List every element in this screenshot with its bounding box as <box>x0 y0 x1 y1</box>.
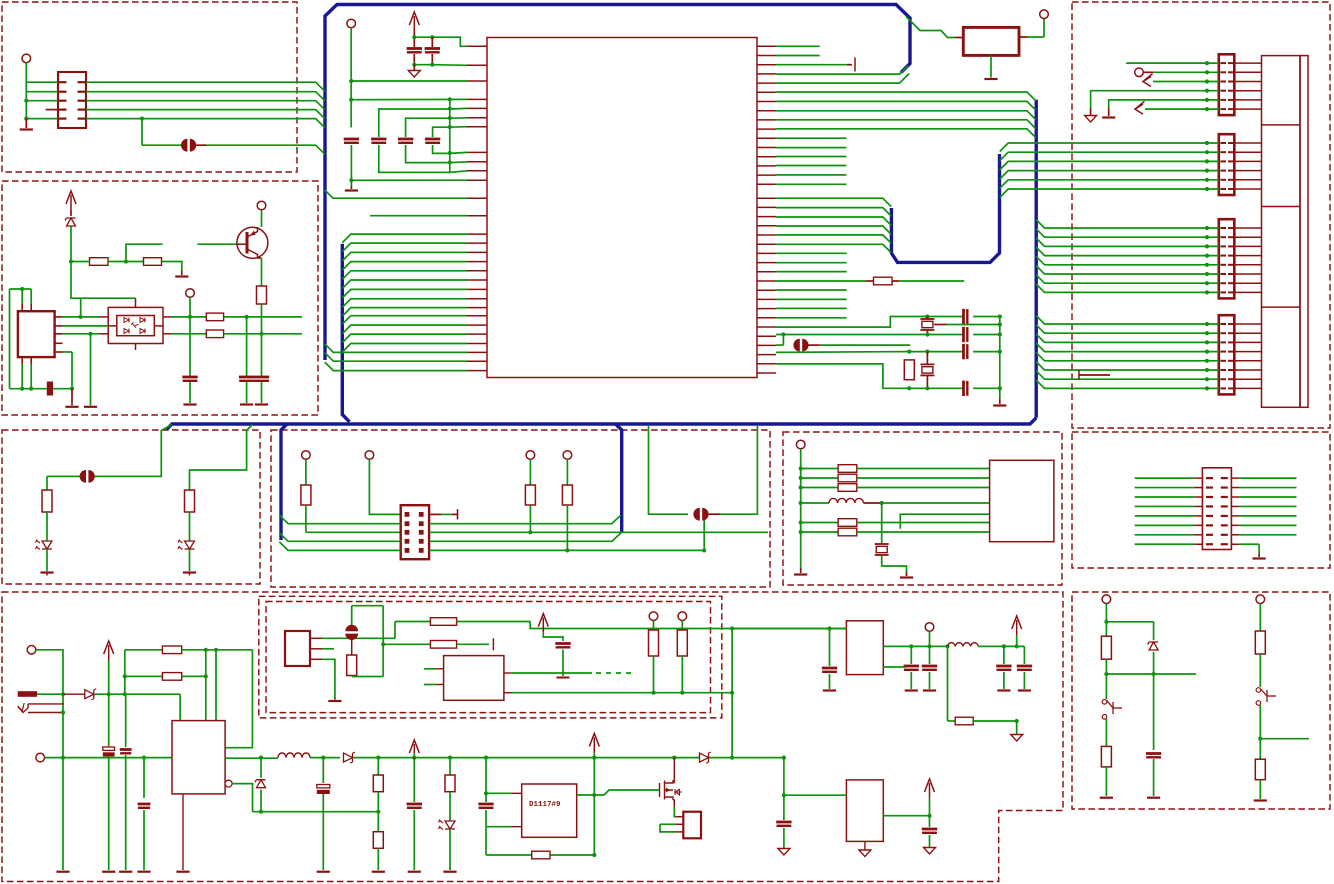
wire <box>305 505 307 532</box>
LED D3 <box>42 541 52 549</box>
wire <box>205 650 207 721</box>
ground <box>183 403 196 405</box>
transistor Q1 <box>237 227 268 258</box>
wire <box>162 262 182 272</box>
ground <box>1100 797 1113 799</box>
wire <box>1105 659 1107 699</box>
zener diode D2 <box>70 210 72 216</box>
3pin connector J9 body <box>683 812 701 839</box>
wire bus to U3 <box>906 17 955 38</box>
wire <box>1016 635 1018 646</box>
cap C21 <box>413 759 415 802</box>
VCC symbol <box>409 740 419 753</box>
wire <box>593 758 595 855</box>
connector CN2 side pins <box>55 316 63 318</box>
ground <box>40 571 53 573</box>
wire <box>660 823 676 825</box>
wire <box>1145 108 1219 110</box>
capacitor C10 <box>254 376 269 379</box>
bus: drop bus into middle connector box <box>281 424 287 540</box>
stub <box>926 330 928 335</box>
terminal pad <box>1102 595 1111 604</box>
main 3V3 rail wire <box>354 757 784 759</box>
ground <box>800 568 802 573</box>
bus: right vertical bus <box>1034 100 1037 418</box>
wire <box>141 119 143 146</box>
wire <box>857 522 990 524</box>
stub <box>504 692 512 694</box>
resistor R19 <box>838 528 857 536</box>
stub <box>955 37 963 39</box>
stub <box>926 375 928 388</box>
wire <box>310 757 340 759</box>
ground <box>999 399 1001 404</box>
zener diode D5 <box>1153 622 1155 640</box>
wire <box>731 629 733 758</box>
CPU U1 body <box>487 38 757 378</box>
connector CN2 body <box>18 311 55 357</box>
ground <box>137 871 150 873</box>
feedback resistor R34 <box>947 646 949 721</box>
wire <box>1135 534 1195 536</box>
wire C5 bottom <box>406 145 467 163</box>
ground <box>334 698 336 700</box>
wire <box>820 344 911 346</box>
stub <box>196 144 206 146</box>
VCC symbol <box>589 734 599 747</box>
stub <box>431 54 433 65</box>
resistor R20 <box>1101 636 1111 659</box>
LED branch 1 <box>94 425 172 477</box>
terminal pad <box>1256 595 1265 604</box>
resistor R31 <box>430 641 456 649</box>
terminal pad J1-P1 <box>22 54 31 63</box>
wire <box>529 505 531 532</box>
ground <box>102 871 115 873</box>
wire <box>377 848 379 870</box>
wire <box>857 468 990 470</box>
ground <box>408 871 421 873</box>
capacitor C2 <box>425 47 440 50</box>
ground <box>1090 109 1092 116</box>
wire <box>80 298 82 317</box>
wire <box>37 693 63 695</box>
wire <box>71 261 90 263</box>
capacitor C11 <box>962 309 965 324</box>
pushbutton S1 <box>1102 700 1107 705</box>
resistor R7 <box>206 330 223 338</box>
wire <box>1106 673 1196 675</box>
cap C19 <box>143 758 145 798</box>
wire to bus <box>206 145 325 154</box>
wire <box>322 659 335 698</box>
ground <box>181 271 183 275</box>
wire <box>784 794 847 796</box>
capacitor C13 <box>962 344 965 359</box>
wire <box>63 325 109 327</box>
stub with bar end <box>429 513 442 515</box>
wire <box>261 258 263 286</box>
wire <box>189 549 191 571</box>
wire <box>1135 543 1195 545</box>
diode D7 <box>344 753 353 762</box>
wire <box>377 792 379 832</box>
wire <box>801 477 838 479</box>
ground <box>56 871 69 873</box>
wire <box>95 693 180 695</box>
wire <box>512 692 732 694</box>
wire <box>394 622 396 639</box>
wire <box>1135 487 1195 489</box>
cap C28 <box>1003 646 1005 664</box>
wire <box>36 650 63 870</box>
capacitor C1 <box>407 47 422 50</box>
ground <box>1108 109 1110 117</box>
stub <box>708 513 720 515</box>
wire <box>70 226 72 262</box>
crystal Y3 <box>881 503 883 544</box>
wire <box>306 531 401 533</box>
crystal circuit wires <box>776 317 964 328</box>
bus: drop bus stub at x=622 <box>616 424 622 532</box>
buck converter U8 body <box>846 621 883 675</box>
stub <box>1019 36 1028 38</box>
wire <box>1239 496 1296 498</box>
ground <box>990 55 992 77</box>
wire <box>261 334 263 376</box>
wire <box>1259 705 1261 759</box>
terminal pad <box>1135 68 1144 77</box>
capacitor <box>398 138 413 141</box>
wire <box>322 637 395 639</box>
ferrite bead FB1 <box>181 139 187 152</box>
wire <box>46 476 48 490</box>
wire <box>1091 91 1219 109</box>
resistor R30 <box>430 618 456 626</box>
stub <box>436 684 444 686</box>
wire <box>681 656 683 693</box>
ground <box>1018 689 1031 691</box>
polarized cap C23 <box>345 625 358 631</box>
group4 wires from right bus <box>1036 316 1219 325</box>
stub <box>511 826 522 828</box>
resistor R8 <box>874 277 893 285</box>
wire <box>882 502 990 504</box>
wire <box>25 82 27 118</box>
resistor R3 <box>90 258 109 266</box>
mixer U2 diodes <box>124 318 129 323</box>
wire <box>457 621 531 623</box>
wire <box>53 388 72 390</box>
connector J1 body <box>58 72 86 128</box>
resistor R23 <box>1255 759 1265 780</box>
ground <box>317 871 330 873</box>
IDC connector J7 body <box>1202 468 1231 550</box>
VCC symbol <box>66 191 76 204</box>
wire <box>189 382 191 403</box>
wire <box>1135 496 1195 498</box>
terminal pad <box>302 451 311 460</box>
wire <box>512 672 592 674</box>
wire zener node to mixer top <box>71 262 136 299</box>
wire <box>142 144 181 146</box>
resistor R10 <box>42 490 52 512</box>
wire <box>369 459 400 514</box>
wire <box>351 179 467 181</box>
capacitor <box>371 138 386 141</box>
ground <box>119 871 132 873</box>
wire <box>352 605 384 607</box>
wire <box>26 81 58 83</box>
resistor R15 <box>838 465 857 473</box>
wire <box>946 324 1000 326</box>
wire <box>351 606 353 625</box>
wire <box>883 815 929 817</box>
wire <box>1135 505 1195 507</box>
cap C18 <box>125 694 127 747</box>
resistor R12 <box>301 485 311 505</box>
cap C29 <box>1023 646 1025 664</box>
ground <box>255 403 268 405</box>
wire <box>566 459 568 485</box>
EMI filter cap C15 <box>649 426 689 514</box>
3pin connector J10 body <box>285 631 310 666</box>
frame box: right connector bank section <box>1072 2 1330 428</box>
frame box: right IDC connector section <box>1072 432 1330 568</box>
wire <box>776 364 964 388</box>
capacitor C31 <box>776 821 791 824</box>
ground <box>1147 797 1160 799</box>
stub <box>258 257 262 259</box>
wire <box>660 824 676 832</box>
wire <box>1153 759 1155 796</box>
wire <box>232 784 252 812</box>
wire <box>703 520 705 550</box>
ground <box>823 689 836 691</box>
wire <box>26 91 58 93</box>
resistor R16 <box>838 474 857 482</box>
mixer pins <box>100 316 108 318</box>
ground <box>350 186 352 189</box>
svg-text:D1117#9: D1117#9 <box>529 801 561 809</box>
wire bundle bus B1 bottom to CPU <box>325 344 467 353</box>
wire <box>1043 19 1045 37</box>
cap C27 <box>929 646 931 664</box>
wire <box>1106 621 1153 623</box>
wire <box>973 334 1000 336</box>
wire <box>562 650 564 677</box>
wire <box>857 531 990 533</box>
ground <box>905 689 918 691</box>
connector J3 body <box>1219 134 1235 195</box>
wire <box>529 459 531 485</box>
polarized cap C17 <box>103 747 115 750</box>
terminal pad <box>1040 10 1049 19</box>
resistor R4 <box>144 258 162 266</box>
wire <box>1239 487 1296 489</box>
wire <box>1153 652 1155 750</box>
wire <box>46 549 48 571</box>
wire <box>124 650 126 694</box>
divider resistor R26 <box>377 758 379 775</box>
wire <box>1239 534 1296 536</box>
stub <box>413 31 415 47</box>
inductor L1 <box>799 501 803 505</box>
wire <box>46 512 48 541</box>
stub <box>926 352 928 365</box>
wire <box>801 522 838 524</box>
wire <box>9 289 11 389</box>
bus: left vertical bus segment B2 <box>342 244 349 422</box>
frame box: LED indicators section <box>2 430 260 584</box>
wire <box>776 317 847 319</box>
frame box: middle header connector section <box>271 430 770 587</box>
wire <box>1153 71 1219 73</box>
stub <box>864 502 882 504</box>
wire <box>486 792 511 794</box>
crystal Y1 <box>920 318 934 320</box>
wire <box>45 757 64 759</box>
wires J1 to bus <box>86 82 325 91</box>
wire <box>350 28 352 128</box>
CN2 to mixer wires <box>63 316 101 318</box>
wire <box>530 622 846 629</box>
wire <box>215 650 217 721</box>
fuse F1 <box>18 691 37 697</box>
bus fan-out wires <box>279 515 400 524</box>
wire C6 top <box>433 127 467 137</box>
mixer U2 inner body <box>117 316 155 336</box>
ground <box>906 572 908 576</box>
resistor R17 <box>838 484 857 492</box>
terminal pad <box>257 201 266 210</box>
wire <box>189 297 191 376</box>
header connector J6 body <box>401 505 429 559</box>
cap C30 <box>929 816 931 827</box>
vertical tie wire <box>999 317 1001 400</box>
wire C4 top <box>379 108 467 137</box>
wire to bus tip <box>776 74 909 84</box>
wire through R30 <box>395 621 430 623</box>
wire <box>903 351 964 353</box>
stub <box>504 672 512 674</box>
wire <box>414 64 432 66</box>
wire <box>370 215 467 217</box>
wire <box>543 633 563 641</box>
wire <box>653 656 655 693</box>
wire <box>973 720 1017 722</box>
dashed wire <box>596 672 636 674</box>
LDO U9 body <box>846 780 883 842</box>
arrow marker <box>1135 101 1145 114</box>
wire <box>225 757 278 759</box>
frame box: ethernet PHY section <box>783 432 1062 585</box>
inductor L2 <box>278 753 310 758</box>
connector J2 pins <box>1221 62 1227 64</box>
VCC symbol <box>104 641 114 654</box>
pushbutton S2 <box>1256 688 1261 693</box>
wire <box>30 289 32 303</box>
IDC J7 pins and wires <box>1206 477 1213 479</box>
terminal pad <box>925 623 934 632</box>
wire <box>929 798 931 816</box>
bus: horizontal bus under CPU <box>167 418 1037 430</box>
wire <box>182 675 206 677</box>
resistor R22 <box>1255 631 1265 654</box>
ground <box>90 334 92 406</box>
ground <box>859 850 871 857</box>
ferrite bead FB3 <box>80 470 86 483</box>
wire <box>674 807 676 817</box>
wire <box>486 826 511 828</box>
feedback wire <box>225 650 252 748</box>
regulator ground pin <box>182 794 184 870</box>
wire <box>783 795 785 820</box>
frame box: RS232 sub-section outer <box>259 596 722 718</box>
wire <box>973 387 1000 389</box>
vertical tie wire <box>449 99 451 172</box>
wire <box>720 426 757 514</box>
wire <box>125 675 163 677</box>
wire <box>973 351 1000 353</box>
connector J4 body <box>1219 219 1235 298</box>
ground <box>25 119 27 128</box>
connector bank housing strip <box>1300 56 1308 408</box>
diode D10 <box>700 753 709 762</box>
frame box: pushbutton section <box>1072 592 1330 809</box>
wire to Q1 base <box>198 243 237 245</box>
wire <box>1016 721 1018 734</box>
terminal pad <box>365 451 374 460</box>
group1 wires <box>1126 62 1219 64</box>
ground <box>71 389 73 406</box>
wire <box>776 351 903 354</box>
CPU U1 right pins <box>757 45 776 47</box>
resistor R13 <box>525 485 535 505</box>
resistor R27 <box>373 832 383 849</box>
wire <box>351 80 467 82</box>
MOSFET Q2 <box>673 758 675 779</box>
polarized cap C7 <box>47 382 53 396</box>
short stub wires <box>776 252 847 254</box>
PHY U4 body <box>990 460 1054 541</box>
bus: U-shaped bus right of CPU <box>891 154 999 262</box>
wire <box>63 757 172 759</box>
frame box: bottom power-supply section (notched) <box>2 592 1063 882</box>
wire pin5 loop <box>63 351 73 353</box>
regulator U5 body <box>172 721 225 794</box>
ground <box>176 871 189 873</box>
capacitor <box>425 138 440 141</box>
wire <box>108 660 110 746</box>
wire <box>882 556 907 573</box>
group2 wires from U bus <box>1000 143 1219 152</box>
wire <box>1028 36 1045 38</box>
crystal case stub <box>934 324 946 326</box>
wire <box>179 694 181 720</box>
connector J4 pins <box>1221 227 1227 229</box>
wire <box>929 631 931 646</box>
VCC symbol <box>1012 616 1022 629</box>
wire <box>1135 477 1195 479</box>
frame box: left oscillator/mixer section <box>2 181 318 415</box>
wire <box>432 64 467 67</box>
connector J1 pin stubs <box>58 81 67 83</box>
stub <box>413 54 415 65</box>
wire C6 bottom <box>433 145 467 153</box>
terminal pad <box>649 612 658 621</box>
wire <box>1105 604 1107 637</box>
